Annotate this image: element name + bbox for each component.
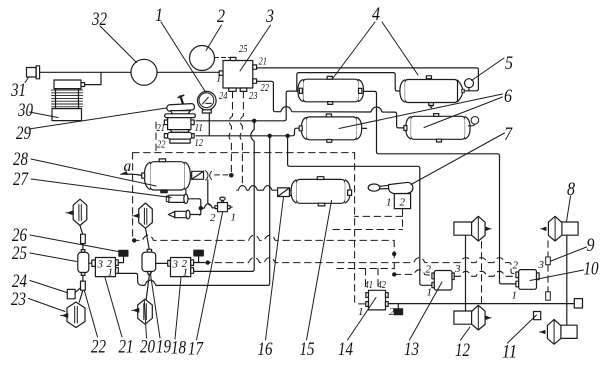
wire cyl25 to relay 21 xyxy=(89,262,92,264)
leader 14 xyxy=(348,298,377,341)
leader 2 xyxy=(206,25,222,51)
test fitting 11 xyxy=(534,312,541,320)
wire tank28 to connector xyxy=(185,190,187,194)
wire: bus B down to relay 21 xyxy=(118,136,270,286)
svg-text:22: 22 xyxy=(261,82,270,94)
wire: tank A to tank B top link xyxy=(297,73,400,92)
gauge stem xyxy=(208,113,210,136)
svg-text:3: 3 xyxy=(538,259,545,271)
leader 32 xyxy=(100,26,137,63)
svg-text:18: 18 xyxy=(171,338,186,359)
svg-text:21: 21 xyxy=(157,122,166,134)
svg-text:1: 1 xyxy=(108,267,114,279)
leader 5 xyxy=(472,58,505,81)
rear axle chamber top-left xyxy=(454,216,491,241)
svg-text:2: 2 xyxy=(217,6,225,27)
wire: bus A down to relay 18 xyxy=(194,121,255,272)
svg-text:17: 17 xyxy=(188,339,204,360)
wires from connectors to tee xyxy=(188,199,201,215)
safety valve circle 32 xyxy=(131,59,157,85)
svg-text:11: 11 xyxy=(195,122,204,134)
svg-text:3: 3 xyxy=(265,6,274,27)
svg-text:3: 3 xyxy=(97,259,104,271)
svg-text:23: 23 xyxy=(11,289,26,310)
svg-text:2: 2 xyxy=(210,212,216,224)
leader 24 xyxy=(30,281,67,293)
dashed handbrake control xyxy=(333,209,403,230)
svg-text:14: 14 xyxy=(338,339,353,360)
svg-text:2: 2 xyxy=(400,197,406,209)
svg-text:5: 5 xyxy=(505,53,513,74)
svg-text:1: 1 xyxy=(386,197,392,209)
svg-text:9: 9 xyxy=(587,235,595,256)
brake sensor 26 xyxy=(119,250,128,256)
leader 11 xyxy=(508,315,537,343)
rear axle chamber bottom-right xyxy=(540,320,578,345)
leader 29 xyxy=(29,108,167,129)
svg-text:1: 1 xyxy=(155,5,163,26)
svg-text:41: 41 xyxy=(365,279,374,291)
dashed sensor row xyxy=(204,258,516,274)
svg-text:15: 15 xyxy=(300,339,315,360)
dashed cab boundary top xyxy=(133,152,355,154)
leader 12 xyxy=(461,327,471,340)
svg-text:24: 24 xyxy=(219,90,228,102)
leader 26 xyxy=(30,235,118,252)
dashed control from valve 3 port 23b xyxy=(240,92,243,187)
svg-text:2: 2 xyxy=(389,306,395,318)
svg-text:24: 24 xyxy=(12,271,27,292)
dashed pedal bracket xyxy=(155,122,157,152)
wire: port 11 line from pedal valve xyxy=(196,91,300,121)
exhaust arrow a xyxy=(126,174,142,175)
svg-text:1: 1 xyxy=(216,73,222,85)
test connector 27 upper xyxy=(166,194,188,203)
leader 31 xyxy=(25,78,29,83)
svg-text:21: 21 xyxy=(259,56,268,68)
silencer 16b on tank 28 xyxy=(192,171,204,179)
vent arc xyxy=(206,171,212,181)
brake pedal valve 29 xyxy=(164,95,195,143)
svg-text:12: 12 xyxy=(455,340,470,361)
svg-text:2: 2 xyxy=(426,264,432,276)
leader 19 xyxy=(150,273,160,338)
regeneration tank 28 xyxy=(142,159,191,193)
shut-off valve 17 xyxy=(215,197,232,212)
dashed relay pilot row xyxy=(394,270,514,277)
relay valve 21 xyxy=(92,258,119,277)
svg-text:23: 23 xyxy=(249,90,258,102)
four-circuit protection valve 3 xyxy=(219,57,256,91)
pressure gauge 24 xyxy=(198,91,217,113)
svg-text:22: 22 xyxy=(91,337,106,358)
valve 22 xyxy=(79,275,83,302)
svg-text:1: 1 xyxy=(512,290,518,302)
dashed control from valve 3 port 23a xyxy=(229,92,233,173)
brake sensor 26b xyxy=(194,250,203,256)
air intake filter 31 xyxy=(27,66,40,79)
wire vertical rear-right chambers xyxy=(566,235,568,325)
wire: port 22 line to tanks C/D xyxy=(257,81,404,128)
svg-text:42: 42 xyxy=(378,279,387,291)
svg-text:32: 32 xyxy=(91,9,107,30)
svg-text:1: 1 xyxy=(231,212,237,224)
leader 20 xyxy=(144,301,146,339)
drain valve circle 5 xyxy=(468,88,470,91)
svg-text:21: 21 xyxy=(119,337,134,358)
leader 30 xyxy=(30,112,59,118)
leader 10 xyxy=(530,270,584,281)
trailer control valve 14 xyxy=(366,290,388,310)
leader 21 xyxy=(105,278,122,338)
leader 28 xyxy=(31,159,156,186)
rear axle chamber bottom-left xyxy=(454,305,491,330)
leader 7 xyxy=(411,133,505,185)
condensate tank 15 xyxy=(290,177,352,206)
air reservoir tank C xyxy=(299,114,362,142)
relay valve 10 xyxy=(516,270,539,290)
quick valve 26a xyxy=(81,234,86,243)
wire: intake to compressor line xyxy=(40,71,220,73)
leader 17 xyxy=(197,213,223,341)
brake cylinder 19 xyxy=(142,249,156,274)
wire: tank C right stub xyxy=(363,127,367,129)
leader 4 xyxy=(333,22,418,78)
drain valve 16 xyxy=(278,188,290,197)
svg-text:1: 1 xyxy=(427,287,433,299)
svg-text:10: 10 xyxy=(584,259,599,280)
test connector 27 lower xyxy=(168,210,190,219)
leader 9 xyxy=(551,247,587,261)
wire with hose hop to valve 17 xyxy=(201,204,216,208)
air reservoir tank B xyxy=(400,76,464,108)
leader 13 xyxy=(410,282,443,340)
bottom trailer bus xyxy=(388,303,574,305)
leader 15 xyxy=(307,201,332,341)
junction dots on line 11/12 xyxy=(252,119,256,123)
svg-text:26: 26 xyxy=(12,225,27,246)
brake cylinder 25 xyxy=(78,250,89,276)
sensor on bus xyxy=(397,304,399,309)
svg-text:25: 25 xyxy=(239,43,248,55)
svg-text:19: 19 xyxy=(156,337,171,358)
leader 18 xyxy=(175,278,181,340)
wire cyl19 to relay 18 xyxy=(156,262,168,264)
svg-text:1: 1 xyxy=(183,267,189,279)
svg-text:2: 2 xyxy=(513,260,519,272)
dots on dashed lines xyxy=(132,238,136,242)
wire cyl19 down to chamber 20 xyxy=(146,275,149,300)
leader 22 xyxy=(85,291,98,337)
leader 16 xyxy=(266,197,284,340)
svg-text:6: 6 xyxy=(504,86,512,107)
dashed trailer valve pilots xyxy=(337,269,394,291)
fitting 9b xyxy=(546,292,551,300)
pressure switch 24 xyxy=(67,289,75,298)
svg-text:27: 27 xyxy=(13,169,29,190)
relay valve 18 xyxy=(168,258,194,277)
svg-text:13: 13 xyxy=(404,339,419,360)
svg-text:11: 11 xyxy=(502,342,517,363)
svg-text:29: 29 xyxy=(16,123,31,144)
relay valve 13 xyxy=(432,271,454,291)
dashed vent line xyxy=(215,174,229,176)
fitting 9 xyxy=(546,257,551,265)
wire: circuit line down to rear axle relay 13 xyxy=(288,136,432,285)
leader 3 xyxy=(240,25,271,71)
rear axle chamber top-right xyxy=(541,216,579,241)
svg-text:22: 22 xyxy=(157,139,166,151)
leader 8 xyxy=(567,196,571,222)
dashed spring line left xyxy=(481,242,483,303)
svg-text:1: 1 xyxy=(358,306,364,318)
svg-text:28: 28 xyxy=(13,149,28,170)
wire: compressor drop xyxy=(85,72,102,84)
front left brake chamber xyxy=(66,199,87,225)
leader 25 xyxy=(30,253,77,262)
svg-text:4: 4 xyxy=(372,4,380,25)
leader 6 xyxy=(339,94,503,129)
svg-text:3: 3 xyxy=(172,259,179,271)
air reservoir tank A xyxy=(298,76,364,104)
svg-text:25: 25 xyxy=(12,243,27,264)
wire chamber to valve 26 xyxy=(80,226,83,250)
rear left brake chamber 23 xyxy=(61,302,85,328)
svg-text:8: 8 xyxy=(567,179,575,200)
trailer coupling head xyxy=(574,299,582,308)
vertical drain pipe xyxy=(208,180,211,206)
wire: tank A right nub down to rear supply xyxy=(362,91,516,284)
dashed control to valve 3 port 25 xyxy=(215,57,231,59)
air reservoir tank D xyxy=(404,114,479,142)
wire vertical rear-left chambers xyxy=(465,235,467,311)
front right brake chamber xyxy=(132,203,152,228)
svg-text:30: 30 xyxy=(17,100,33,121)
svg-text:7: 7 xyxy=(504,124,513,145)
svg-text:31: 31 xyxy=(10,80,26,101)
governor circle 2 xyxy=(190,46,215,71)
leader 27 xyxy=(31,179,171,198)
leader 1 xyxy=(161,22,206,92)
wire: port 12 line to tank C xyxy=(196,128,299,136)
svg-text:a: a xyxy=(124,158,132,175)
dashed cab boundary left xyxy=(132,153,134,240)
compressor 30 xyxy=(52,80,85,121)
dashed spring line right xyxy=(547,241,549,292)
dashed boundary right / handbrake feed xyxy=(355,153,366,304)
svg-text:12: 12 xyxy=(195,137,204,149)
svg-text:20: 20 xyxy=(140,337,155,358)
leader 23 xyxy=(29,299,66,312)
svg-text:3: 3 xyxy=(454,263,461,275)
hand brake valve 7 xyxy=(368,182,413,208)
rear right brake chamber 20 xyxy=(132,299,153,324)
wire chamber to cylinder 19 xyxy=(146,228,150,249)
dash-dot trailer line xyxy=(133,235,395,274)
svg-text:16: 16 xyxy=(258,339,273,360)
wire: port 21 supply line to right frame xyxy=(257,68,479,91)
condensate wavy hose line xyxy=(237,186,278,191)
